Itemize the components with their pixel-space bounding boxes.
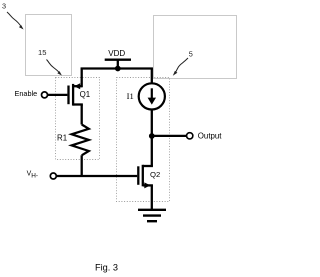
wire rail down to I1 [151, 69, 153, 84]
transistor Q1 [69, 83, 83, 105]
wire Enable to Q1 gate [48, 94, 68, 96]
svg-text:R1: R1 [57, 134, 67, 143]
current source I1 [139, 83, 165, 109]
svg-text:VDD: VDD [108, 49, 125, 58]
wire R1 bottom to VH- rail [81, 155, 83, 176]
leader arrow from 5 [175, 58, 188, 72]
svg-text:Output: Output [198, 131, 222, 140]
transistor Q2 [138, 165, 153, 189]
wire top rail [81, 67, 153, 69]
svg-text:I1: I1 [127, 91, 134, 101]
wire output node down to Q2 drain [151, 136, 153, 166]
VH- terminal circle [50, 173, 56, 179]
node VDD junction [115, 66, 121, 72]
wire VH- to Q2 gate [56, 175, 137, 177]
block 5 outer box (top-right) [154, 16, 237, 79]
svg-text:Q2: Q2 [150, 170, 160, 179]
Enable terminal circle [42, 92, 48, 98]
svg-text:5: 5 [189, 50, 193, 59]
svg-text:15: 15 [38, 48, 46, 57]
wire output node to Output terminal [151, 135, 187, 137]
svg-text:Fig. 3: Fig. 3 [95, 263, 118, 273]
svg-text:3: 3 [2, 1, 6, 10]
VDD power bar [105, 59, 131, 61]
node output junction [149, 133, 155, 139]
block 15 outer box (top-left) [26, 15, 72, 76]
inner dotted box around Q1 and R1 [56, 78, 100, 160]
ground [138, 210, 166, 221]
wire I1 to output node [151, 110, 153, 137]
resistor R1 [72, 125, 89, 156]
wire VDD stub [117, 60, 119, 69]
wire Q2 source to ground [151, 185, 153, 209]
Output terminal circle [187, 133, 193, 139]
svg-text:Q1: Q1 [80, 90, 91, 99]
leader arrow from 15 [47, 60, 60, 74]
wire Q1 source down to R1 [81, 105, 83, 125]
leader arrow from 3 [7, 12, 22, 27]
inner dotted box around I1 and Q2 [117, 78, 170, 202]
wire from rail down to Q1 drain [81, 69, 83, 88]
svg-text:Enable: Enable [15, 89, 38, 98]
